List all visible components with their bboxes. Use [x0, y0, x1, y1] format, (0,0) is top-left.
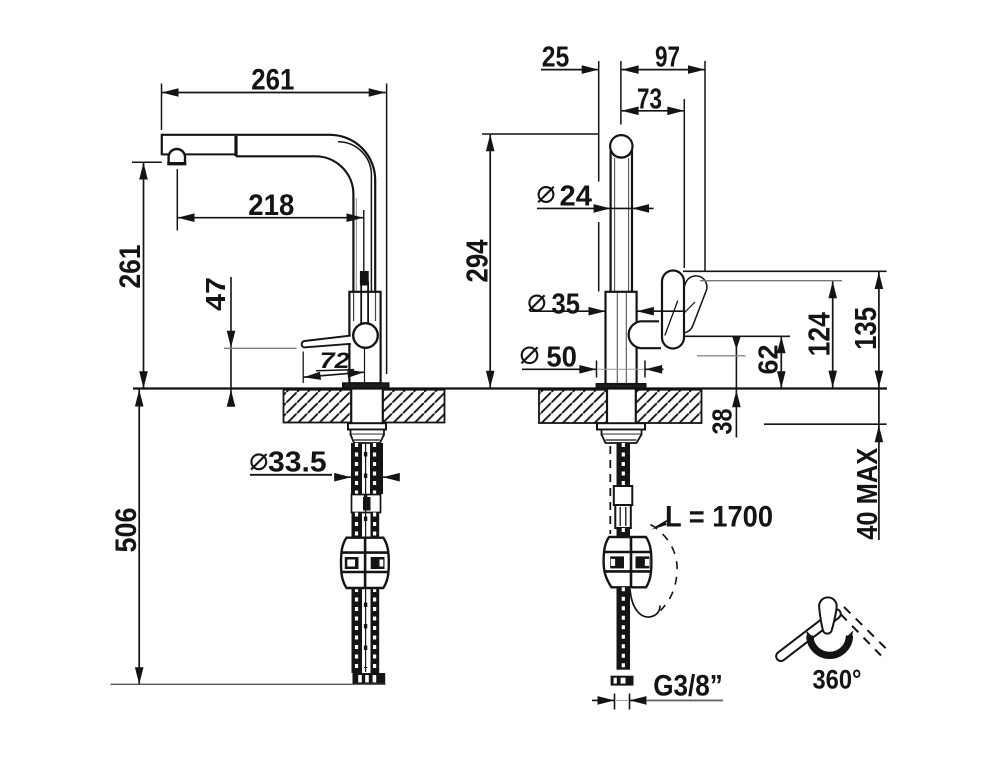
svg-text:47: 47 [200, 277, 231, 311]
svg-text:40 MAX: 40 MAX [852, 447, 884, 540]
svg-text:33.5: 33.5 [268, 447, 327, 479]
svg-text:L = 1700: L = 1700 [665, 501, 773, 534]
svg-text:261: 261 [114, 245, 147, 289]
svg-text:97: 97 [655, 42, 680, 74]
svg-text:38: 38 [706, 409, 737, 435]
svg-text:360°: 360° [813, 664, 862, 694]
svg-text:124: 124 [802, 311, 837, 356]
svg-text:73: 73 [637, 84, 662, 116]
svg-text:25: 25 [542, 42, 570, 74]
svg-text:506: 506 [110, 508, 143, 553]
svg-text:G3/8”: G3/8” [653, 670, 723, 703]
svg-text:135: 135 [848, 307, 883, 350]
svg-text:294: 294 [459, 239, 494, 283]
svg-text:35: 35 [552, 289, 580, 321]
svg-text:24: 24 [560, 180, 592, 212]
svg-text:261: 261 [251, 63, 294, 96]
svg-text:62: 62 [753, 345, 784, 375]
svg-text:218: 218 [248, 189, 294, 222]
